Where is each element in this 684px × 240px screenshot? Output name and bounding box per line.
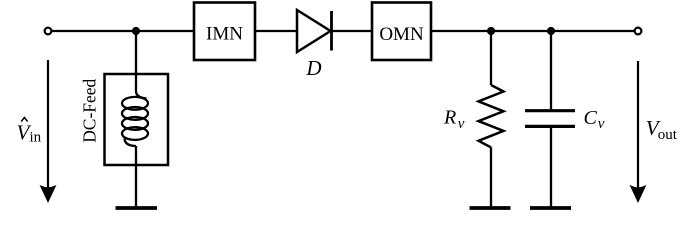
node: junction at Rv (487, 27, 495, 35)
svg-text:DC-Feed: DC-Feed (80, 79, 100, 143)
IMN box U1 (194, 3, 255, 61)
wire: coil to ground (135, 146, 137, 207)
wire: IMN to diode (255, 30, 297, 32)
svg-text:v: v (598, 116, 605, 132)
svg-text:C: C (584, 107, 598, 129)
svg-text:D: D (305, 56, 321, 80)
svg-text:in: in (30, 130, 42, 146)
arrow Vout (631, 61, 646, 202)
resistor Rv (479, 85, 504, 147)
arrow Vin (41, 60, 56, 202)
svg-text:out: out (658, 127, 678, 143)
ground (Rv) (470, 206, 511, 210)
input terminal (open circle) (45, 28, 52, 35)
ground (Cv) (530, 206, 571, 210)
wire: capacitor to ground (550, 128, 552, 207)
wire: junction down to capacitor Cv (550, 31, 552, 109)
svg-text:R: R (443, 107, 456, 129)
svg-text:v: v (458, 116, 465, 132)
output terminal (open circle) (635, 28, 642, 35)
wire: diode to OMN (332, 30, 373, 32)
svg-text:IMN: IMN (206, 24, 243, 45)
diode D (297, 10, 332, 52)
wire: OMN to output terminal (431, 30, 635, 32)
capacitor Cv (525, 111, 575, 127)
wire: resistor to ground (490, 147, 492, 207)
node: junction at DC-feed branch (132, 27, 140, 35)
ground (DC-feed) (116, 206, 158, 210)
node: junction at Cv (547, 27, 555, 35)
svg-text:OMN: OMN (379, 24, 424, 45)
OMN box U2 (372, 3, 431, 61)
inductor L (DC-feed coil) (122, 91, 148, 146)
DC-Feed box (105, 74, 169, 165)
wire: input terminal to IMN (52, 30, 195, 32)
wire: junction down to resistor Rv (490, 31, 492, 85)
wire: junction down into DC-feed box (135, 31, 137, 91)
